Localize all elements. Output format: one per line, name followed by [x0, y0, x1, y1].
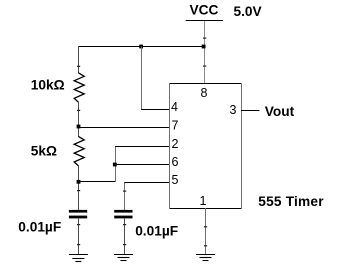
resistor R1 10k zigzag: [74, 73, 84, 102]
tick on pin5 drop: [123, 191, 126, 192]
wire: top horizontal rail from R1 top to VCC drop: [78, 46, 205, 48]
svg-text:4: 4: [171, 100, 178, 114]
node: junction dot top rail / VCC: [202, 45, 206, 49]
svg-text:5.0V: 5.0V: [234, 4, 263, 19]
svg-text:2: 2: [172, 137, 179, 151]
tick on C2 ground lead: [123, 244, 126, 245]
tick on left rail below R1: [77, 110, 80, 111]
wire: VCC vertical drop to pin 8: [204, 21, 206, 83]
wire: C1 to ground: [78, 218, 80, 255]
svg-text:3: 3: [230, 103, 237, 117]
wire: left rail upper segment: [78, 46, 80, 73]
wire: vertical pin5 to C2: [124, 183, 126, 211]
capacitor C2 plates: [114, 210, 132, 213]
node: junction dot R2 bottom: [77, 180, 81, 184]
node: junction dot pin6 branch: [113, 163, 117, 167]
VCC power symbol bar: [186, 20, 223, 22]
tick on C1 ground lead: [77, 224, 80, 225]
svg-text:7: 7: [172, 119, 179, 133]
tick on VCC wire: [203, 66, 206, 67]
wire: pin 3 output stub: [241, 110, 260, 112]
svg-text:1: 1: [200, 194, 207, 208]
svg-text:VCC: VCC: [190, 3, 219, 18]
svg-text:Vout: Vout: [265, 104, 295, 119]
svg-text:5kΩ: 5kΩ: [31, 144, 57, 159]
wire: horizontal into pin 4: [141, 109, 169, 111]
svg-text:6: 6: [172, 155, 179, 169]
wire: left rail between R1 and R2: [78, 102, 80, 137]
node: junction dot pin7 branch: [77, 125, 81, 129]
tick on left rail below node: [77, 190, 80, 191]
wire: horizontal into pin 7: [78, 127, 169, 129]
wire: vertical trigger/threshold branch: [115, 146, 117, 182]
capacitor C1 plates: [69, 210, 87, 213]
tick on C2 ground lead: [123, 224, 126, 225]
ground under pin 1: [196, 255, 215, 261]
svg-text:0.01µF: 0.01µF: [135, 223, 178, 238]
wire: horizontal from R2 bottom node to trigger branch: [78, 181, 116, 183]
wire: horizontal from pin 5: [124, 182, 169, 184]
wire: left rail below R2 to C1: [78, 166, 80, 211]
wire: pin 1 to ground: [205, 208, 207, 254]
resistor R2 5k zigzag: [74, 136, 84, 165]
tick on pin1 lead: [204, 226, 207, 227]
ground under C2: [114, 255, 133, 261]
svg-text:555 Timer: 555 Timer: [258, 194, 324, 209]
wire: horizontal into pin 2: [115, 146, 169, 148]
svg-text:10kΩ: 10kΩ: [31, 78, 65, 93]
IC U1 555 timer body: [169, 83, 242, 209]
tick on pin1 lead: [204, 245, 207, 246]
svg-text:0.01µF: 0.01µF: [18, 220, 61, 235]
svg-text:5: 5: [172, 173, 179, 187]
wire: vertical drop to pin 4: [141, 47, 143, 110]
tick on VCC wire: [203, 38, 206, 39]
node: junction dot top rail / pin4 branch: [139, 45, 143, 49]
wire: horizontal into pin 6: [115, 164, 169, 166]
svg-text:8: 8: [201, 86, 208, 100]
tick on left rail: [77, 66, 80, 67]
ground under C1: [69, 255, 88, 262]
wire: C2 to ground: [124, 218, 126, 255]
tick on C1 ground lead: [77, 244, 80, 245]
